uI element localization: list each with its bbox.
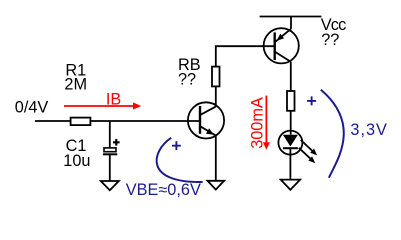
ground under C1 (101, 181, 119, 190)
wire RB to Q2 base (216, 46, 276, 66)
transistor Q1 NPN (188, 102, 224, 138)
wire input horizontal (35, 120, 201, 122)
svg-text:VBE≈0,6V: VBE≈0,6V (126, 181, 201, 199)
LED voltage arc (321, 90, 344, 178)
Vcc rail (260, 16, 322, 18)
capacitor C1 (103, 139, 120, 154)
svg-text:3,3V: 3,3V (350, 121, 388, 139)
wire resistor to LED (290, 111, 292, 135)
plus LED voltage (307, 96, 316, 105)
wire Q1 collector to RB (215, 87, 217, 107)
current arrow 300mA (263, 96, 270, 150)
wire LED to ground (289, 148, 291, 179)
wire C1 branch (109, 121, 111, 148)
resistor series LED (287, 91, 295, 111)
wire C1 to ground (109, 154, 111, 181)
current arrow IB (64, 102, 141, 109)
LED emission arrows (299, 140, 317, 163)
svg-text:??: ?? (321, 31, 339, 49)
transistor Q2 PNP (264, 28, 299, 63)
wire Q2 collector down (290, 62, 292, 91)
wire Q2 emitter to rail (290, 17, 292, 29)
VBE arc (157, 138, 203, 182)
resistor RB (212, 67, 220, 87)
svg-text:??: ?? (178, 70, 196, 88)
svg-text:300mA: 300mA (248, 97, 266, 149)
plus VBE (172, 141, 181, 150)
LED D1 (278, 131, 302, 155)
svg-text:0/4V: 0/4V (15, 99, 49, 117)
ground under Q1 emitter (208, 181, 225, 190)
ground under LED (281, 180, 300, 190)
resistor R1 (71, 118, 91, 126)
svg-text:IB: IB (106, 90, 121, 108)
svg-text:2M: 2M (64, 76, 87, 94)
wire Q1 emitter to ground (215, 136, 217, 181)
svg-text:10u: 10u (63, 152, 90, 170)
